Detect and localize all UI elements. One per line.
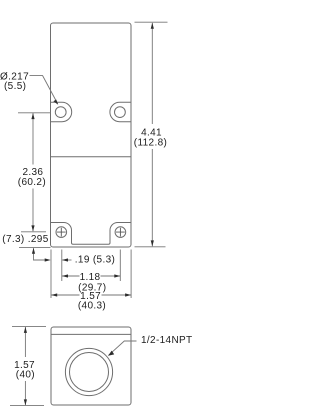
extension line below left hole [61,250,63,282]
svg-text:1.18: 1.18 [80,272,101,283]
dim line 2.36 lower segment [32,189,34,232]
dim tail .295 below [34,248,46,260]
leader line 1/2-14NPT [108,341,136,355]
conduit outer circle [65,348,112,395]
arrowhead 1.57(40) bottom [24,399,27,405]
top-left mounting boss [51,102,72,121]
arrowhead 4.41 bottom [151,240,154,246]
arrowhead 4.41 top [151,23,154,29]
extension line top-left hole center [18,112,51,114]
leader arrowhead dia .217 [53,100,58,105]
arrowhead .19 right (outside, pointing left) [62,258,68,261]
svg-text:1/2-14NPT: 1/2-14NPT [141,335,193,346]
svg-text:.19 (5.3): .19 (5.3) [75,255,115,266]
dim line 1.57(40) lower segment [24,381,26,405]
arrowhead 1.57 left [51,293,57,296]
svg-text:(7.3) .295: (7.3) .295 [2,234,48,245]
extension line bottom edge (4.41 dim) [135,246,166,248]
leader line dia .217 [30,76,58,104]
top-right mounting hole [115,107,126,118]
dim line 2.36 upper segment [32,113,34,164]
dim line 1.57 left segment [51,294,79,296]
bottom-right hole crosshair [116,228,125,237]
extension line bottom-left hole center [21,231,46,233]
extension line below left edge [50,250,52,299]
top-right mounting boss [110,102,131,121]
extension line bottom view top [12,325,46,327]
arrowhead 2.36 top [31,113,34,119]
extension line below right hole [119,250,121,282]
arrowhead 1.57(40) top [24,327,27,333]
svg-text:(40): (40) [16,370,35,381]
arrowhead 2.36 bottom [31,225,34,231]
arrowhead 1.18 right [114,274,120,277]
top-left mounting hole [55,107,66,118]
dim line 4.41 upper segment [151,23,153,124]
bottom view outline [51,327,131,405]
bottom-left mounting hole [56,227,67,238]
leader arrowhead 1/2-14NPT [108,351,114,356]
arrowhead 1.18 left [62,274,68,277]
extension line top edge (4.41 dim) [135,21,168,23]
arrowhead 1.57 right [125,293,131,296]
extension line bottom view bottom [10,405,44,407]
bottom-right mounting hole [115,227,126,238]
svg-text:(60.2): (60.2) [18,177,46,188]
svg-text:(5.5): (5.5) [4,81,26,92]
dim line 4.41 lower segment [151,149,153,246]
bottom boss step outline [51,223,132,245]
extension line below right edge [130,250,132,299]
svg-text:(40.3): (40.3) [78,301,106,312]
conduit inner circle [70,353,109,392]
cover lip line [51,333,131,335]
dim line 1.18 right segment [101,275,121,277]
dim line 1.18 left segment [62,275,79,277]
arrowhead .295 bottom (outside, pointing up) [32,248,35,254]
bottom-left hole crosshair [57,228,66,237]
svg-text:(112.8): (112.8) [134,137,167,148]
arrowhead .19 left (outside, pointing right) [45,258,51,261]
dim line 1.57(40) upper segment [24,327,26,357]
dim line 1.57 right segment [102,294,131,296]
enclosure body outline (front view) [51,23,132,247]
extension line bottom edge leftward (.295 dim) [19,246,51,248]
body mid parting line [51,156,132,158]
dim line .19 right arrow tail [62,259,71,261]
